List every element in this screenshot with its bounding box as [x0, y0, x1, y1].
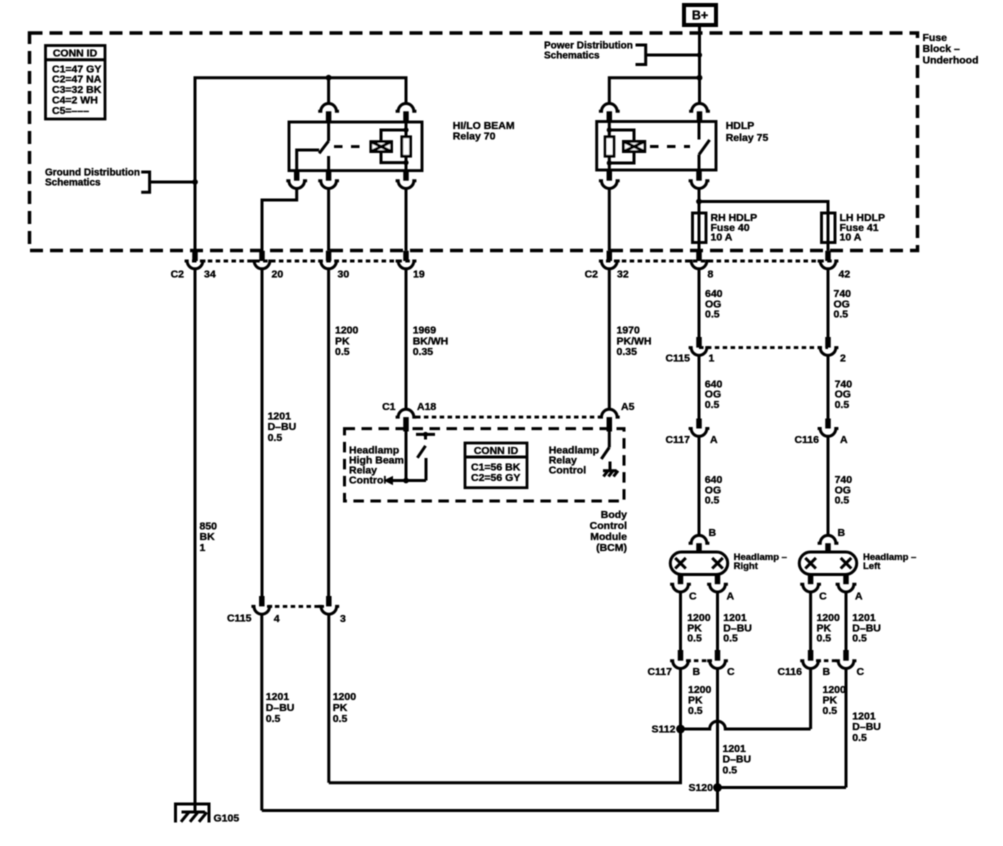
- pin: relay 75 coil feed (top): [599, 103, 620, 111]
- svg-text:0.5: 0.5: [835, 495, 850, 507]
- pin C115-3: [326, 596, 332, 606]
- svg-text:0.5: 0.5: [335, 346, 350, 358]
- svg-text:19: 19: [413, 268, 425, 280]
- svg-text:0.35: 0.35: [413, 346, 434, 358]
- wire: 1200 PK from C115-3 down to bottom run: [327, 614, 330, 783]
- svg-text:0.35: 0.35: [617, 346, 638, 358]
- svg-text:G105: G105: [214, 813, 240, 825]
- pin: relay 75 switch feed (top): [689, 103, 710, 111]
- svg-text:10 A: 10 A: [840, 232, 862, 244]
- svg-text:C2: C2: [171, 268, 185, 280]
- relay 75 coil linkage (dashed): [650, 145, 690, 148]
- pin C117-B: [678, 650, 684, 661]
- svg-text:C115: C115: [665, 352, 690, 364]
- relay 70 coil linkage (dashed): [334, 145, 360, 148]
- node: relay 75 coil/resistor junctions: [607, 127, 612, 132]
- svg-text:C2: C2: [585, 268, 599, 280]
- svg-text:0.5: 0.5: [705, 309, 720, 321]
- pin: relay 70 output to pin 20 wire (bottom left): [294, 171, 300, 181]
- svg-text:0.5: 0.5: [852, 633, 867, 645]
- svg-text:S120: S120: [688, 782, 713, 794]
- svg-text:30: 30: [338, 268, 350, 280]
- svg-text:1: 1: [200, 542, 206, 554]
- pin C2-30: [326, 251, 332, 261]
- svg-text:0.5: 0.5: [823, 705, 838, 717]
- chassis ground symbol inside BCM: [609, 462, 612, 471]
- svg-text:4: 4: [274, 613, 280, 625]
- svg-text:C: C: [857, 666, 865, 678]
- bracket + wire: Power Distribution Schematics tap: [636, 45, 646, 65]
- svg-text:Fuse: Fuse: [923, 32, 948, 44]
- wire: C117-B down to splice S112: [679, 669, 682, 730]
- svg-text:32: 32: [617, 268, 629, 280]
- connector row C117 pins B,C (dashed line): [686, 659, 712, 662]
- pin C117-A: [696, 419, 702, 429]
- wire: 1201 D-BU from C115-4 down to bottom run: [260, 614, 263, 810]
- wire: S120 horizontal to left 1201 wire: [718, 786, 847, 789]
- connector row C116 pins B,C (dashed line): [816, 659, 840, 662]
- wire: 740 OG from C2-42 to C115-2: [827, 269, 830, 337]
- svg-text:A: A: [840, 434, 848, 446]
- svg-text:0.5: 0.5: [835, 399, 850, 411]
- svg-text:Control: Control: [349, 474, 386, 486]
- connector id table CONN ID (underhood fuse block): [46, 46, 106, 120]
- connector id table CONN ID (BCM): [465, 443, 527, 488]
- svg-text:Underhood: Underhood: [923, 54, 979, 66]
- wire: 1200 PK from C2-30 to C115-3: [327, 269, 330, 596]
- battery feed B+ terminal: [684, 5, 716, 25]
- wire: relay 75 switch output to fuses: [698, 189, 701, 251]
- svg-text:B: B: [823, 666, 831, 678]
- wire: C116-C down to S120 wire: [845, 669, 848, 788]
- svg-text:HDLP: HDLP: [726, 120, 755, 132]
- wire: headlamp left A to C116-C: [845, 592, 848, 650]
- relay 75 internal resistor: [608, 122, 611, 171]
- wire: branch to LH HDLP fuse 41: [699, 202, 828, 251]
- svg-text:CONN ID: CONN ID: [474, 445, 519, 457]
- wire: 640 OG from C117-A to headlamp right B: [698, 436, 701, 535]
- wire: relay 70 coil to C2 pin 19: [405, 189, 408, 251]
- pin C2-20: [259, 251, 265, 261]
- wire: left feed rail to HI/LO BEAM relay: [195, 78, 406, 251]
- wire: relay 70 switch output to C2 pin 30: [327, 189, 330, 251]
- svg-text:Relay 70: Relay 70: [453, 131, 496, 143]
- relay HI/LO BEAM Relay 70 (outline): [289, 122, 422, 171]
- relay 75 switch (leg and blade): [698, 122, 701, 140]
- svg-text:CONN ID: CONN ID: [53, 48, 98, 60]
- node: junction on 850 BK wire at ground distribution tap: [192, 179, 198, 185]
- svg-text:A18: A18: [417, 401, 436, 413]
- svg-text:C116: C116: [794, 434, 819, 446]
- svg-text:Schematics: Schematics: [45, 178, 101, 189]
- svg-text:3: 3: [340, 613, 346, 625]
- wire: B+ feed down to HDLP relay switch pin: [698, 26, 701, 103]
- wire: rail drop to HI/LO relay switch pin: [327, 78, 330, 103]
- pin C116-C: [843, 650, 849, 661]
- svg-text:0.5: 0.5: [723, 764, 738, 776]
- svg-text:(BCM): (BCM): [596, 542, 627, 554]
- pin C2-19: [403, 251, 409, 261]
- relay 70 internal resistor: [405, 122, 408, 171]
- module BCM boundary (dashed box): [345, 429, 625, 501]
- svg-text:C2=56 GY: C2=56 GY: [471, 472, 520, 484]
- svg-text:42: 42: [839, 268, 851, 280]
- svg-text:20: 20: [272, 268, 284, 280]
- wire: relay 70 bottom-left pin to C2 pin 20: [262, 189, 297, 251]
- svg-text:8: 8: [708, 268, 714, 280]
- wire: branch from B+ to HDLP relay coil pin: [609, 78, 699, 103]
- fuse LH HDLP Fuse 41 10 A: [822, 213, 836, 243]
- svg-text:0.5: 0.5: [834, 309, 849, 321]
- svg-text:C1: C1: [382, 401, 396, 413]
- node: fuse feed junction: [696, 199, 702, 205]
- relay 75 coil loop wires: [609, 130, 634, 141]
- pin A of headlamp Left: [843, 575, 849, 585]
- pin B of headlamp Left (arc+stub): [818, 535, 839, 543]
- svg-text:Schematics: Schematics: [544, 51, 600, 62]
- pin A of headlamp Right: [715, 575, 721, 585]
- wire: 1201 D-BU from C2-20 to C115-4: [261, 269, 264, 596]
- fuse RH HDLP Fuse 40 10 A: [693, 213, 707, 243]
- svg-text:C117: C117: [665, 434, 690, 446]
- wire: 1969 BK/WH from C2-19 to BCM A18: [405, 269, 408, 410]
- pin BCM A5 (arc + stub): [599, 409, 620, 417]
- svg-text:B: B: [693, 666, 701, 678]
- wire: C117-C down to splice S120: [716, 669, 719, 788]
- svg-text:C115: C115: [227, 612, 252, 624]
- relay HDLP Relay 75 (outline): [597, 122, 716, 171]
- pin: relay 70 coil ground (bottom right): [403, 171, 409, 181]
- wire: headlamp right C to C117-B: [679, 592, 682, 650]
- svg-text:A: A: [710, 434, 718, 446]
- wire: 740 OG from C116-A to headlamp left B: [827, 436, 830, 535]
- svg-text:0.5: 0.5: [266, 713, 281, 725]
- wire: C116-B down and over to S112: [809, 669, 812, 730]
- svg-text:Right: Right: [734, 561, 759, 572]
- svg-text:0.5: 0.5: [705, 495, 720, 507]
- svg-text:Block –: Block –: [923, 43, 961, 55]
- svg-text:Control: Control: [549, 464, 586, 476]
- relay 75 coil (crossed box): [623, 141, 644, 151]
- pin: relay 70 switch output (bottom middle): [326, 171, 332, 181]
- wire: 640 OG from C2-8 to C115-1: [698, 269, 701, 337]
- fuse block boundary (dashed box, Fuse Block - Underhood): [30, 33, 918, 251]
- pin C116-B: [808, 650, 814, 661]
- pin C117-C: [715, 650, 721, 661]
- connector row at BCM (dotted line): [416, 416, 602, 419]
- wire: 740 OG from C115-2 to C116-A: [827, 355, 830, 418]
- svg-text:0.5: 0.5: [333, 713, 348, 725]
- pin: relay 70 coil feed (top): [396, 104, 417, 112]
- pin B of headlamp Right (arc+stub): [689, 535, 710, 543]
- pin C of headlamp Left: [808, 575, 814, 585]
- wire: relay 75 coil to C2 pin 32: [608, 189, 611, 251]
- pin BCM C1-A18 (arc + stub): [396, 409, 417, 417]
- lamp Headlamp - Left (stadium outline with bulbs): [799, 552, 856, 575]
- svg-text:0.5: 0.5: [687, 633, 702, 645]
- svg-text:C: C: [727, 666, 735, 678]
- pin C2-8: [696, 251, 702, 261]
- svg-text:34: 34: [204, 268, 216, 280]
- BCM headlamp high beam relay control output (wire, node, arrow): [405, 432, 408, 481]
- pin C of headlamp Right: [678, 575, 684, 585]
- connector row C115 pins 1,2 (dashed line): [699, 346, 828, 349]
- pin C115-2: [825, 337, 831, 348]
- svg-text:Relay 75: Relay 75: [726, 132, 769, 144]
- relay 70 coil (crossed box): [371, 142, 392, 152]
- svg-text:S112: S112: [652, 724, 676, 736]
- svg-text:10 A: 10 A: [711, 232, 733, 244]
- lamp Headlamp - Right (stadium outline with bulbs): [670, 552, 727, 575]
- wire: S112 down and left to 1200 PK column: [329, 729, 681, 783]
- relay 70 switch (common leg, blade, contact): [327, 122, 330, 141]
- connector row C2 (right group) dotted line: [606, 260, 832, 263]
- pin C115-4: [259, 596, 265, 606]
- svg-text:C: C: [689, 591, 697, 603]
- pin: relay 75 coil ground (bottom): [607, 170, 613, 181]
- svg-text:A: A: [855, 591, 863, 603]
- splice S120 (node): [713, 783, 722, 792]
- pin: relay 75 switch output (bottom): [696, 170, 702, 181]
- node: junction of rail and HI/LO relay switch pin: [326, 75, 332, 81]
- pin C2-34 (stub+arc): [192, 251, 198, 261]
- relay 70 coil loop wires: [381, 130, 406, 142]
- svg-text:Left: Left: [863, 561, 881, 572]
- connector row C115 pins 4,3 (dashed line): [267, 605, 324, 608]
- svg-text:B: B: [838, 527, 846, 539]
- pin C2-32: [607, 251, 613, 261]
- wire: headlamp right A to C117-C: [716, 592, 719, 650]
- wire: S112 to left headlamp 1200 PK (with hop over 1201 wire): [681, 721, 811, 729]
- BCM high-beam driver switch symbol: [416, 433, 435, 436]
- node: power distribution tap junction: [697, 52, 702, 57]
- wire: headlamp left C to C116-B: [809, 592, 812, 650]
- svg-text:0.5: 0.5: [688, 705, 703, 717]
- svg-text:0.5: 0.5: [723, 633, 738, 645]
- pin C115-1: [696, 337, 702, 348]
- svg-text:B+: B+: [692, 9, 708, 23]
- splice S112 (node): [676, 725, 685, 734]
- connector row C2 (left group) dotted line: [192, 260, 410, 263]
- pin: relay 70 switch feed (top, female arc + male stub): [318, 104, 339, 112]
- svg-text:2: 2: [840, 352, 846, 364]
- wire: S120 down and left to 1201 D-BU column: [262, 788, 718, 811]
- svg-text:0.5: 0.5: [705, 399, 720, 411]
- wire: 1970 PK/WH from C2-32 to BCM A5: [608, 269, 611, 410]
- pin C116-A: [825, 419, 831, 429]
- svg-text:C5=–––: C5=–––: [52, 105, 89, 117]
- svg-text:C: C: [819, 591, 827, 603]
- node: HDLP relay coil branch junction: [697, 75, 703, 81]
- svg-text:1: 1: [709, 352, 715, 364]
- svg-text:A: A: [727, 591, 735, 603]
- svg-text:A5: A5: [621, 401, 635, 413]
- wire: 640 OG from C115-1 to C117-A: [698, 355, 701, 418]
- ground G105 symbol: [176, 804, 210, 823]
- svg-text:B: B: [709, 527, 717, 539]
- svg-text:0.5: 0.5: [817, 633, 832, 645]
- svg-text:0.5: 0.5: [852, 732, 867, 744]
- BCM headlamp relay control switch symbol: [608, 432, 611, 448]
- pin C2-42: [825, 251, 831, 261]
- svg-text:0.5: 0.5: [268, 432, 283, 444]
- wire: 850 BK ground wire down to G105: [194, 269, 197, 804]
- node: relay 70 coil/resistor junctions: [403, 127, 408, 132]
- svg-text:C117: C117: [647, 666, 672, 678]
- svg-text:C116: C116: [777, 666, 802, 678]
